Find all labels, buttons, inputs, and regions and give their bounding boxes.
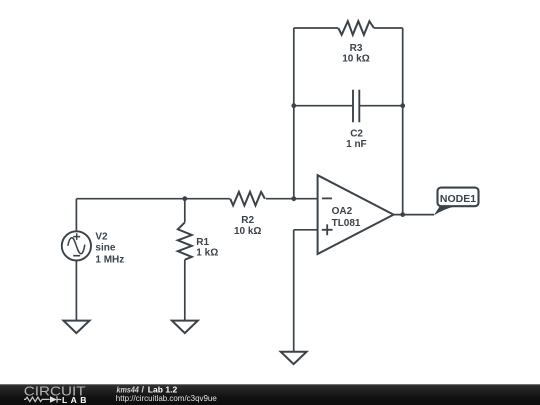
- svg-text:V2: V2: [95, 231, 108, 242]
- svg-text:10 kΩ: 10 kΩ: [342, 54, 369, 65]
- svg-text:NODE1: NODE1: [440, 193, 476, 205]
- svg-text:sine: sine: [95, 242, 115, 253]
- svg-text:TL081: TL081: [332, 218, 361, 229]
- svg-text:OA2: OA2: [332, 206, 353, 217]
- svg-text:1 MHz: 1 MHz: [95, 254, 124, 265]
- svg-text:R1: R1: [196, 237, 209, 248]
- svg-text:1 kΩ: 1 kΩ: [196, 247, 218, 258]
- svg-text:1 nF: 1 nF: [346, 139, 367, 150]
- svg-text:C2: C2: [350, 129, 363, 140]
- svg-text:R2: R2: [241, 215, 254, 226]
- svg-text:http://circuitlab.com/c3qv9ue: http://circuitlab.com/c3qv9ue: [116, 393, 217, 403]
- svg-text:R3: R3: [350, 43, 363, 54]
- svg-text:LAB: LAB: [62, 395, 87, 405]
- svg-text:10 kΩ: 10 kΩ: [234, 226, 261, 237]
